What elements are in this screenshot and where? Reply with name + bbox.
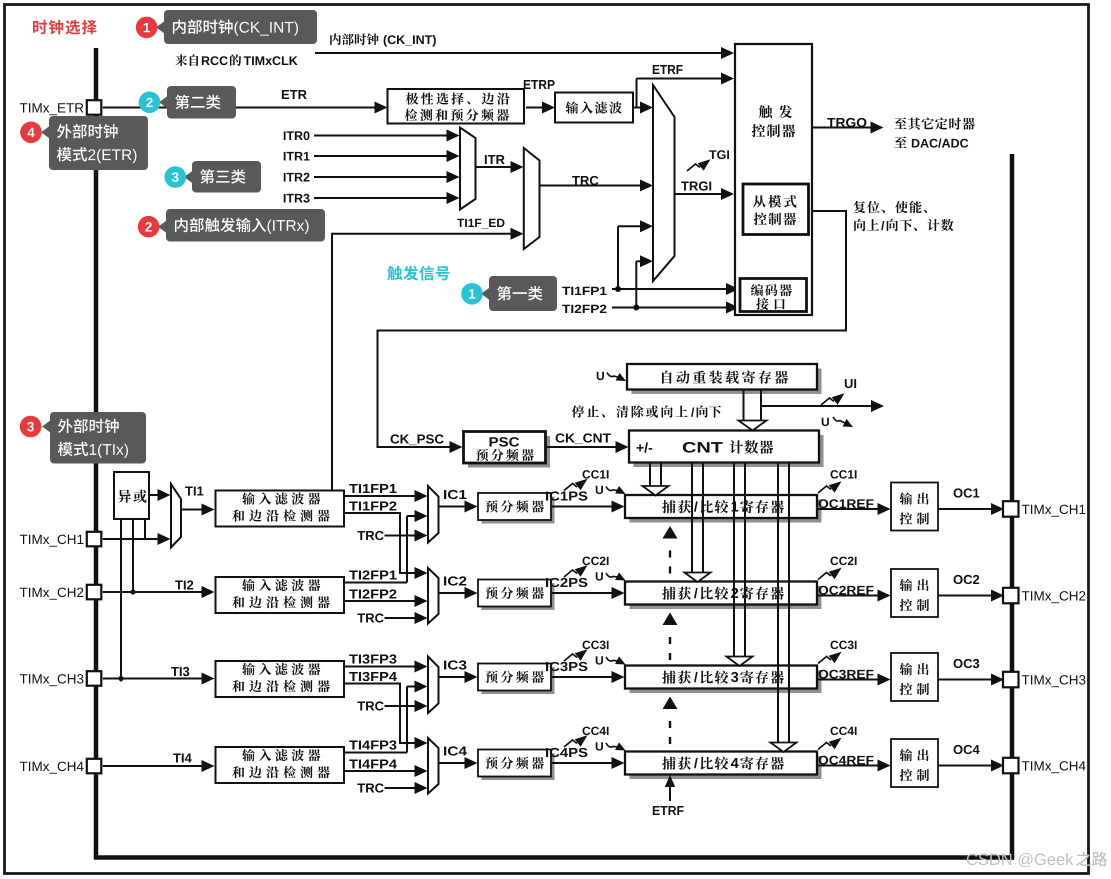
wire CK_INT to trigger controller — [315, 52, 729, 54]
label CC2I left with event arrow — [582, 557, 608, 565]
wire IC3PS — [551, 676, 620, 678]
wire TIMx_CH4 TI4 — [103, 765, 210, 767]
block slave mode controller — [743, 184, 809, 235]
label TI2 — [175, 580, 193, 589]
label IC1PS — [546, 491, 587, 500]
label TRGI — [681, 181, 711, 190]
block polarity-select edge-detect prescaler — [388, 89, 525, 124]
mux IC2 select — [428, 568, 439, 624]
label U capture row 2 — [596, 572, 603, 580]
wire TI1F_ED — [332, 233, 519, 235]
label U capture row 4 — [596, 742, 603, 750]
label TI3FP4 — [349, 672, 397, 681]
label CC4I left with event arrow — [582, 727, 608, 735]
row 3: TIMx_CH3 left terminal — [20, 674, 84, 686]
row 1: TIMx_CH1 left terminal — [20, 535, 84, 547]
label CK_PSC — [391, 434, 444, 445]
label TIMx_ETR — [20, 103, 84, 115]
wire TI1FP2 down to next row mux — [344, 513, 423, 573]
wire update event UI — [761, 405, 878, 407]
wire IC4 — [439, 762, 474, 764]
wire TIMx_CH3 TI3 — [103, 678, 210, 680]
callout 1 internal clock CK_INT — [164, 10, 317, 44]
wire ETRF capture into CC4 register — [669, 787, 671, 801]
label stop clear or up/down — [572, 405, 688, 417]
callout 4 external clock mode2 ETR — [49, 116, 148, 170]
block PSC prescaler — [468, 436, 550, 468]
label TI1F_ED — [457, 219, 504, 229]
label IC2PS — [546, 578, 587, 587]
label IC3 — [444, 660, 466, 669]
block output control row 2 — [891, 569, 938, 617]
label TI4FP4 — [349, 760, 397, 769]
label OC4 — [954, 745, 980, 754]
label TIMx_CH3 right — [1022, 675, 1086, 687]
label OC2 — [954, 575, 980, 584]
label U capture row 1 — [596, 486, 603, 494]
label TI2FP2 — [349, 589, 396, 598]
wire TI1 to input filter — [181, 509, 210, 511]
label IC3PS — [546, 662, 587, 671]
wire OC2REF — [817, 595, 886, 597]
wire ITR — [476, 166, 519, 168]
label TRC row 4 — [357, 783, 383, 792]
mux IC1 select — [428, 486, 439, 543]
wire TI1FP1 to encoder and trigger mux — [612, 288, 735, 290]
wire CK_CNT — [545, 446, 624, 448]
wire TI3FP4 down to next row mux — [344, 684, 423, 744]
wire TIMx_CH2 TI2 — [103, 591, 210, 593]
label TI1FP1 — [349, 484, 396, 493]
wire TRGI — [675, 193, 730, 195]
left bus line — [94, 48, 99, 858]
mux ITR select — [460, 128, 476, 210]
watermark CSDN — [967, 853, 1074, 867]
label UI with event arrow — [845, 379, 856, 388]
label IC1 — [444, 490, 467, 499]
row 4: TIMx_CH4 left terminal — [20, 762, 84, 774]
wire TI1FP1 to mux — [344, 495, 423, 497]
wire slave controller to CK_PSC — [378, 211, 847, 447]
mux trigger input select — [653, 85, 675, 281]
wire TI2FP1 up to previous row mux — [344, 582, 407, 584]
block input filter edge detector row 4 — [216, 747, 345, 783]
label IC2 — [444, 576, 466, 585]
block auto-reload register ARR — [632, 369, 822, 395]
label TI3FP3 — [349, 654, 396, 663]
hollow arrow CNT to CC2 register — [691, 463, 693, 573]
block capture-compare register 2 — [630, 586, 822, 609]
label CC3I right with event arrow — [830, 641, 856, 650]
label TGI with event arrow — [709, 150, 729, 159]
block capture-compare register 4 — [630, 756, 822, 779]
row 2: TIMx_CH2 left terminal — [20, 588, 84, 600]
block capture-compare register 3 — [630, 670, 822, 693]
mux TRC select — [524, 148, 540, 249]
block input filter — [555, 93, 633, 123]
wire ETRP — [526, 107, 550, 109]
wire OC1REF — [817, 508, 886, 510]
mux TI1 select after XOR — [171, 484, 181, 548]
label TRC row 3 — [357, 701, 383, 710]
label CC1I right with event arrow — [830, 470, 856, 478]
wire IC4PS — [551, 762, 620, 764]
block input filter edge detector row 3 — [216, 661, 345, 697]
callout 2 second class — [167, 86, 236, 119]
label TI1FP2 — [349, 501, 396, 510]
XOR input taps from CH1 CH2 CH3 — [120, 519, 122, 682]
block output control row 3 — [891, 653, 938, 701]
wire from next row up into mux in2 — [407, 515, 423, 517]
labels ITR0-ITR3 — [284, 131, 310, 140]
label CC4I right with event arrow — [830, 727, 856, 735]
label IC4 — [444, 746, 467, 755]
label TI1 — [185, 487, 203, 496]
wire ETRF to mux and trigger controller — [633, 107, 649, 109]
block CNT counter — [634, 435, 824, 467]
block trigger controller — [735, 44, 812, 315]
label CC2I right with event arrow — [830, 557, 856, 565]
label TI2FP2 trigger — [562, 305, 606, 313]
bottom bus line — [94, 855, 1014, 860]
label TRC — [572, 176, 598, 185]
label OC1 — [954, 488, 980, 497]
label CC3I left with event arrow — [582, 641, 608, 650]
label ETRP — [524, 80, 555, 89]
terminal TIMx_CH4 right — [1003, 758, 1019, 774]
terminal TIMx_CH1 right — [1003, 501, 1019, 517]
wire TRC stub row 3 — [385, 705, 424, 707]
label CK_CNT — [556, 433, 611, 444]
terminal TIMx_CH3 right — [1003, 672, 1019, 688]
label from RCC TIMxCLK — [175, 54, 198, 66]
mux IC3 select — [428, 657, 439, 714]
block input filter edge detector row 2 — [216, 577, 345, 613]
label TIMx_CH1 right — [1022, 505, 1086, 517]
right bus line — [1010, 154, 1015, 860]
label ETRF — [653, 65, 683, 74]
wire TIMx_CH1 to mux — [103, 538, 166, 540]
dashed capture arrow into CC2 register — [669, 629, 671, 660]
label TI4 — [173, 754, 192, 763]
label TRC row 1 — [357, 531, 383, 540]
label CC1I left with event arrow — [582, 470, 608, 478]
wire OC3 — [938, 679, 999, 681]
terminal TIMx_CH2 right — [1003, 588, 1019, 604]
block output control row 1 — [891, 483, 938, 531]
wire IC1PS — [551, 506, 620, 508]
wire IC2PS — [551, 592, 620, 594]
label TRGO — [827, 118, 866, 127]
label trigger signal teal — [387, 266, 449, 281]
wires ITR0-ITR3 — [314, 135, 455, 137]
callout 3 third class — [192, 161, 261, 193]
wire OC2 — [938, 595, 999, 597]
wire OC1 — [938, 508, 999, 510]
wire XOR output to mux — [149, 494, 166, 496]
hollow arrow CNT to CC1 register — [649, 463, 651, 486]
callout 2 internal trigger input ITRx — [166, 209, 325, 242]
mux IC4 select — [428, 738, 439, 794]
wire TI2FP2 to encoder and trigger mux — [612, 307, 735, 309]
label U event into ARR — [597, 372, 604, 380]
block input filter edge detector row 1 — [216, 491, 345, 527]
label ETR — [282, 90, 307, 99]
wire TRC to trigger mux — [540, 185, 649, 187]
label OC1REF — [819, 499, 874, 508]
callout 1 first class — [489, 276, 557, 311]
hollow arrow CNT to CC4 register — [777, 463, 779, 743]
label U capture row 3 — [596, 656, 603, 664]
dashed capture arrow into CC1 register — [669, 543, 671, 574]
label TI2FP1 — [349, 570, 396, 579]
label OC2REF — [819, 586, 874, 595]
dashed capture arrow into CC3 register — [669, 713, 671, 744]
wire from next row up into mux in2 — [407, 686, 423, 688]
wire OC3REF — [817, 679, 886, 681]
wire TI3FP3 to mux — [344, 666, 423, 668]
wire TRC stub row 2 — [385, 617, 424, 619]
block prescaler row 3 — [482, 667, 555, 694]
hollow arrow ARR to CNT — [743, 390, 745, 421]
label ITR — [485, 155, 505, 164]
terminal TIMx_ETR — [87, 100, 102, 115]
wire IC3 — [439, 676, 474, 678]
wire TRGO — [812, 127, 878, 129]
title clock-select label — [33, 20, 97, 35]
wire TI4FP3 up to previous row mux — [344, 752, 407, 754]
wire ETR — [103, 107, 383, 109]
label to other timers / DAC ADC — [894, 117, 974, 129]
label OC3 — [954, 659, 980, 668]
label TI3 — [171, 667, 189, 676]
label TRC row 2 — [357, 613, 383, 622]
block prescaler row 2 — [482, 583, 555, 610]
label reset enable up-down count — [854, 201, 927, 213]
block capture-compare register 1 — [630, 500, 822, 523]
callout 3 external clock mode1 TIx — [50, 412, 146, 464]
wire TRC stub row 1 — [385, 535, 424, 537]
hollow arrow CNT to CC3 register — [733, 463, 735, 657]
label CK_INT internal clock — [330, 33, 378, 45]
wire TI4FP4 to mux — [344, 770, 423, 772]
wire TI2FP2 to mux — [344, 600, 423, 602]
block prescaler row 4 — [482, 753, 555, 780]
wire OC4 — [938, 765, 999, 767]
wire IC2 — [439, 592, 474, 594]
label TIMx_CH4 right — [1022, 761, 1086, 773]
label OC3REF — [819, 670, 874, 679]
wire TRC stub row 4 — [385, 787, 424, 789]
wire IC1 — [439, 506, 474, 508]
block output control row 4 — [891, 739, 938, 787]
label U below update line — [822, 418, 829, 426]
block encoder interface — [740, 279, 807, 312]
block XOR — [114, 472, 149, 519]
label IC4PS — [546, 748, 587, 757]
label OC4REF — [819, 756, 874, 765]
label TIMx_CH2 right — [1022, 591, 1086, 603]
wire OC4REF — [817, 765, 886, 767]
label ETRF bottom — [653, 806, 684, 815]
block prescaler row 1 — [482, 497, 555, 524]
label TI4FP3 — [349, 740, 396, 749]
label TI1FP1 trigger — [562, 287, 606, 295]
